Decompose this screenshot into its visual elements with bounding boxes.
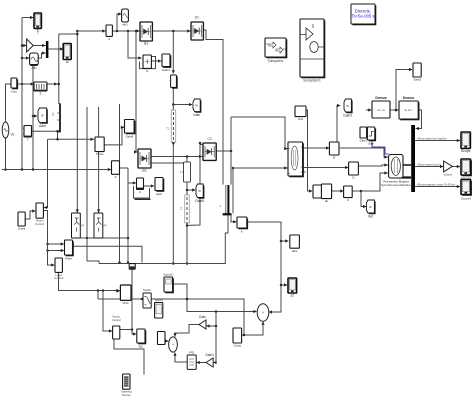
net label rotor speed rpm <box>417 162 442 166</box>
wire pulse out y246 <box>73 246 142 262</box>
wire x200 down <box>188 142 201 226</box>
label C3 <box>207 137 211 141</box>
block VDC <box>120 285 131 305</box>
svg-text:w2rpm: w2rpm <box>444 173 453 177</box>
block A <box>112 161 120 179</box>
svg-text:Gain: Gain <box>156 192 162 196</box>
wire blue torque wire <box>372 141 389 154</box>
series RLC branch L1b <box>179 195 189 225</box>
wire VC1 bottom path <box>114 339 144 375</box>
wire trunk x33 <box>32 66 34 170</box>
wire bar out rotor speed <box>415 139 460 142</box>
mux M1 <box>46 41 49 58</box>
wire Mux M1 to Scope S2 <box>48 47 63 50</box>
gain GT1 <box>199 315 206 329</box>
svg-text:B: B <box>333 156 335 160</box>
powergui <box>351 4 376 25</box>
block K1 <box>237 217 248 234</box>
wire into Gain G1 <box>21 44 27 47</box>
sine ref Sin2 <box>122 9 129 27</box>
goto Iabc <box>290 235 300 253</box>
svg-text:Ts=5e-005 s: Ts=5e-005 s <box>352 14 375 19</box>
svg-text:C3: C3 <box>207 137 211 141</box>
wire horizontal y34 <box>59 33 78 35</box>
svg-text:Iref: Iref <box>368 215 373 219</box>
svg-text:MC: MC <box>139 345 144 349</box>
source block V2 <box>11 78 18 94</box>
wire C2 feedback box <box>134 186 150 198</box>
wire Vref to ab blocks <box>304 110 312 193</box>
ports DM2 <box>404 108 412 112</box>
wire rad2rpm to Scope R2 <box>452 165 460 168</box>
block C2 <box>137 178 144 194</box>
wire branch to tw display <box>32 114 38 117</box>
wire riser to fc <box>128 31 142 60</box>
scope SB <box>288 278 297 298</box>
wire PID to sum2 <box>173 352 187 362</box>
wire VC to x47 <box>43 211 54 267</box>
display Gain2d <box>193 99 201 117</box>
demux DM2 <box>399 101 420 120</box>
label R3 <box>461 197 472 201</box>
vector control VC <box>36 203 43 218</box>
wire L1 top riser <box>186 155 189 162</box>
label DM1 <box>375 96 386 100</box>
display Gain5b <box>366 200 375 219</box>
net label rotor speed <box>417 136 448 140</box>
wire demux1 stub <box>366 108 372 111</box>
gain block Gain4 <box>155 178 164 197</box>
label SRC line2 <box>122 393 131 397</box>
wire Sin S to Mux M1 <box>38 51 45 58</box>
wire B1 to bridge D1 <box>152 29 190 32</box>
scope R1 <box>461 132 471 153</box>
label PMSM line1 <box>383 179 409 183</box>
wire pulse in1 <box>46 242 64 245</box>
svg-text:abc dq: abc dq <box>377 108 385 112</box>
gain block G2 <box>162 54 171 72</box>
wire Constant to VC <box>25 209 35 219</box>
svg-text:Scope: Scope <box>461 149 471 153</box>
scope S1 <box>34 13 41 33</box>
svg-text:Step: Step <box>368 142 374 146</box>
wire L2 bottom to bus <box>172 142 175 265</box>
svg-text:Gain: Gain <box>39 124 46 128</box>
AC source Vs <box>2 122 14 138</box>
series RLC branch L2 <box>166 110 176 145</box>
wire blk349 to machine b <box>359 163 388 166</box>
svg-text:SpeedC: SpeedC <box>163 272 173 276</box>
wire Gain G1 to Mux M1 <box>33 44 46 47</box>
constant Vref <box>295 106 306 121</box>
wire into GainT2 <box>213 361 216 364</box>
label rad2rpm <box>444 173 453 177</box>
signal element C2bar <box>51 104 60 132</box>
wire x200 riser to C3 <box>200 144 202 146</box>
svg-text:B1: B1 <box>144 42 148 46</box>
gain rad2rpm <box>444 161 453 172</box>
wire bus y263 <box>99 215 228 263</box>
svg-text:Sin: Sin <box>31 66 36 70</box>
svg-text:Pulse: Pulse <box>65 257 72 261</box>
wire fc feedback box <box>140 57 156 69</box>
svg-text:Demux: Demux <box>403 96 414 100</box>
wire source V1 left <box>6 84 11 122</box>
label SpeedRPM <box>155 298 164 302</box>
sum block SUM2 <box>169 337 178 352</box>
svg-text:Gain: Gain <box>199 315 206 319</box>
svg-text:VDC: VDC <box>123 301 130 305</box>
wire C to Gain5b <box>353 190 367 208</box>
IGBT leg Q2 <box>94 213 103 238</box>
label R2 <box>461 176 472 180</box>
wire demux1 to demux2 <box>390 108 398 111</box>
svg-text:+: + <box>172 343 174 347</box>
svg-text:ab: ab <box>325 199 329 203</box>
svg-text:A: A <box>114 175 116 179</box>
wire A out to x128 <box>120 167 128 169</box>
integrator I1 <box>170 75 178 89</box>
svg-text:s2: s2 <box>291 294 295 298</box>
wire riser to tw2 <box>337 104 340 148</box>
wire transformer to x57 <box>32 130 59 133</box>
wire x231 into mux M2 <box>230 117 232 185</box>
wire LC down to VDC <box>59 272 121 292</box>
wire D1 out right-down <box>203 30 223 185</box>
wire Three1 to tw1 <box>104 126 124 145</box>
wire blk237 trunk x281 <box>247 222 281 314</box>
label LC line1 <box>55 273 62 277</box>
label SpeedC <box>163 272 173 276</box>
wire B2 lower out to L1 <box>151 162 183 164</box>
wire riser x396 to Gain3 <box>396 68 412 110</box>
label SS2 <box>303 79 321 83</box>
wire y168 to controller <box>233 166 288 169</box>
svg-text:Scope2: Scope2 <box>461 197 472 201</box>
svg-text:C2: C2 <box>51 112 55 116</box>
wire bottom bus y169 <box>2 168 111 171</box>
svg-text:Com: Com <box>11 90 18 94</box>
wire B2 to bridge C3 <box>151 155 202 158</box>
wire PWM output to x58 <box>47 82 59 85</box>
wire B to machine a <box>336 147 388 159</box>
svg-text:Demux: Demux <box>375 96 386 100</box>
label VC line2 <box>35 222 44 226</box>
label SS1 <box>268 59 284 63</box>
block MC <box>137 329 147 349</box>
svg-text:Source: Source <box>122 393 131 397</box>
label LC line2 <box>54 276 63 280</box>
wire x173 into L2 <box>172 105 174 111</box>
wire GainT1 out <box>173 325 199 337</box>
bus selector BUS <box>411 125 415 192</box>
svg-text:Gain3: Gain3 <box>413 78 421 82</box>
svg-text:L1: L1 <box>180 170 184 174</box>
wire branch to Gain5d <box>186 188 196 191</box>
wire riser to Sin2 <box>117 12 122 31</box>
svg-text:Gain1: Gain1 <box>162 68 170 72</box>
svg-text:B2: B2 <box>142 169 146 173</box>
svg-text:PID: PID <box>189 350 194 354</box>
wire x87 trunk <box>86 107 89 261</box>
PMSM machine <box>387 155 403 179</box>
IGBT leg Q1 <box>72 213 81 238</box>
universal bridge B2 <box>138 149 151 173</box>
svg-text:<Rotor speed wm (rad/s)>: <Rotor speed wm (rad/s)> <box>417 136 448 140</box>
block ab2 <box>321 184 331 203</box>
mux M2 <box>223 185 232 215</box>
svg-text:sin1: sin1 <box>122 23 128 27</box>
wire machine to bus bar <box>403 164 411 166</box>
svg-text:Const: Const <box>18 227 26 231</box>
label D1 <box>195 16 200 20</box>
svg-text:L1: L1 <box>179 206 183 210</box>
gain block GS <box>360 127 368 143</box>
wire vertical x119 <box>118 104 121 264</box>
label SW <box>143 288 152 292</box>
wire x216 down <box>215 312 217 363</box>
scope R3 <box>461 180 472 196</box>
display SpeedC <box>164 277 174 293</box>
pulse block PU <box>65 240 74 261</box>
display tw2 <box>343 99 352 118</box>
wire C2 out to Gain4 <box>144 184 155 187</box>
logic control LC <box>55 258 62 272</box>
label Q1 <box>81 223 84 227</box>
svg-text:Vs: Vs <box>11 133 15 137</box>
constant C2b <box>233 328 242 348</box>
universal bridge D1 <box>191 22 203 40</box>
wire pulse in2 <box>46 249 64 252</box>
svg-text:Subsystem1: Subsystem1 <box>303 79 321 83</box>
svg-text:L2: L2 <box>166 126 170 130</box>
wire into Three1 <box>48 138 95 141</box>
wire speed bus y299 <box>98 298 244 335</box>
svg-text:Const: Const <box>234 344 242 348</box>
gain G1 <box>27 39 34 52</box>
block B <box>329 142 339 160</box>
label VC1 line1 <box>112 315 120 319</box>
wire x233 vertical <box>232 167 235 214</box>
svg-text:Gain: Gain <box>193 113 200 117</box>
gain GT2 <box>205 353 214 367</box>
switch block SW <box>143 293 151 308</box>
step block ST <box>367 127 376 146</box>
wire x98 to speed bus <box>97 291 99 300</box>
wire trunk x136 to B2 <box>134 31 137 154</box>
svg-text:Gain7: Gain7 <box>360 139 368 143</box>
steering source SRC <box>123 374 130 389</box>
svg-text:<Electromagnetic torque Te (N*: <Electromagnetic torque Te (N*m)> <box>416 183 456 186</box>
svg-text:Iabc: Iabc <box>292 249 298 253</box>
display tw <box>38 108 48 128</box>
ports DM1 <box>377 108 385 112</box>
svg-text:Control: Control <box>35 222 44 226</box>
svg-text:Vref: Vref <box>298 117 304 121</box>
wire bar out torque <box>415 185 460 188</box>
svg-text:Synchronous Machine: Synchronous Machine <box>381 183 411 187</box>
label s1 <box>37 31 39 35</box>
universal bridge C3 <box>203 143 216 160</box>
label DM2 <box>403 96 414 100</box>
pulse generator PG <box>34 82 47 96</box>
wire C to machine c <box>361 171 388 191</box>
svg-text:2: 2 <box>40 92 42 96</box>
sum block SUM1 <box>257 304 269 322</box>
PID block <box>187 350 196 369</box>
block W1 <box>158 332 166 345</box>
label SRC line1 <box>121 390 132 394</box>
shadow C2 box <box>135 199 151 200</box>
wire to Scope S1 <box>22 16 34 19</box>
wire P2 to bridge B1 <box>112 29 139 32</box>
wire source V1 bottom <box>2 138 6 170</box>
wire into GainT1 <box>206 324 217 327</box>
wire vertical trunk x58 <box>58 34 61 104</box>
label L1 <box>180 170 184 174</box>
wire integrator down to Gain2d <box>172 87 192 106</box>
controller CTRL <box>288 142 304 177</box>
svg-text:DC: DC <box>195 16 200 20</box>
series RLC branch L1 <box>184 162 191 182</box>
svg-text:Switch: Switch <box>143 288 152 292</box>
wire trunk x128 to bus <box>127 168 130 264</box>
wire into Sin S <box>21 56 30 59</box>
display tw1 <box>125 120 136 139</box>
wire demux2 out to bar <box>415 110 421 130</box>
wire into C2 <box>128 181 136 184</box>
label M2 <box>220 204 222 208</box>
wire L1b bottom to bus <box>186 223 189 265</box>
transformer T <box>23 126 34 142</box>
svg-text:Subsystem: Subsystem <box>268 59 284 63</box>
wire controller out1 to B <box>303 146 330 149</box>
wire SpeedC to sum1 <box>173 284 257 313</box>
scope SpeedRPM <box>155 303 163 318</box>
wire machine shaft thick <box>398 176 411 178</box>
wire controller out3 <box>303 171 306 173</box>
label VC line1 <box>36 219 44 223</box>
svg-text:Three: Three <box>96 152 104 156</box>
wire trunk x78 to IGBT1 <box>76 30 79 213</box>
svg-text:dq abc: dq abc <box>404 108 412 112</box>
demux DM1 <box>372 101 390 118</box>
subsystem SS1 <box>265 38 287 58</box>
svg-text:+: + <box>262 311 264 315</box>
scope S2 <box>63 44 71 65</box>
block P2 <box>106 25 112 41</box>
block D <box>349 162 359 180</box>
wire L1 to Gain5d <box>186 182 188 195</box>
wire branch to Iabc <box>280 239 289 242</box>
wire GainT2 to PID <box>196 361 206 364</box>
svg-text:Gain1: Gain1 <box>205 353 214 357</box>
wire tiny block drop <box>131 270 137 336</box>
wire x87 drop to bus <box>87 261 99 264</box>
svg-text:Gain8: Gain8 <box>125 135 133 139</box>
svg-text:<Rotor speed (rpm)>: <Rotor speed (rpm)> <box>417 162 442 166</box>
net label torque <box>416 183 456 186</box>
subsystem SS2 <box>300 19 325 78</box>
wire C3 out to x231 <box>216 150 232 153</box>
wire controller out2 <box>303 166 349 169</box>
wire VC1 out <box>120 329 132 331</box>
svg-text:Control: Control <box>112 318 121 322</box>
wire const2 to sum1 <box>242 321 265 336</box>
sine source S <box>30 53 39 70</box>
vector control VC1 <box>113 326 120 339</box>
block C <box>344 186 353 202</box>
block ab1 <box>313 185 323 198</box>
wire x103 to VC1 <box>103 291 112 333</box>
wire feedback to VC right <box>44 139 48 209</box>
wire vertical trunk x22 <box>21 18 24 170</box>
wire x98 trunk to IGBT2 <box>97 107 100 213</box>
wire GainS to Step <box>366 132 369 134</box>
wire PWM input <box>17 82 34 85</box>
scope R2 <box>461 159 472 176</box>
wire into block P2 <box>77 29 105 32</box>
wire x47 top <box>46 209 48 211</box>
svg-text:K: K <box>241 230 243 234</box>
transfer fcn fc <box>143 55 151 73</box>
svg-text:Gain6: Gain6 <box>195 199 204 203</box>
wire bar out speed2 <box>415 165 443 168</box>
wire y238 tall1 out <box>81 237 130 240</box>
wire fc to Gain1 <box>151 59 161 62</box>
label PMSM line2 <box>381 183 411 187</box>
svg-text:T: T <box>27 138 29 142</box>
label Q2 <box>104 223 107 227</box>
wire bar C2 bottom drop <box>57 131 59 139</box>
three-phase block Three1 <box>95 137 104 156</box>
wire ab to C <box>332 189 344 192</box>
wire trunk x173 to integrator <box>172 30 175 74</box>
wire y117 to controller <box>231 117 288 150</box>
constant C1 <box>18 212 26 231</box>
gain block Gain3 <box>413 63 421 82</box>
universal bridge B1 <box>140 22 152 46</box>
svg-text:Speed: Speed <box>155 298 164 302</box>
label VC1 line2 <box>112 318 121 322</box>
display Gain5d <box>195 184 204 203</box>
tag block TG <box>129 264 135 270</box>
svg-text:Control: Control <box>54 276 63 280</box>
wire blk160 to sum2 <box>165 339 168 342</box>
svg-text:Gain2: Gain2 <box>343 114 352 118</box>
wire branch to Scope SB <box>280 283 288 286</box>
wire K1 input from bar <box>231 215 237 223</box>
